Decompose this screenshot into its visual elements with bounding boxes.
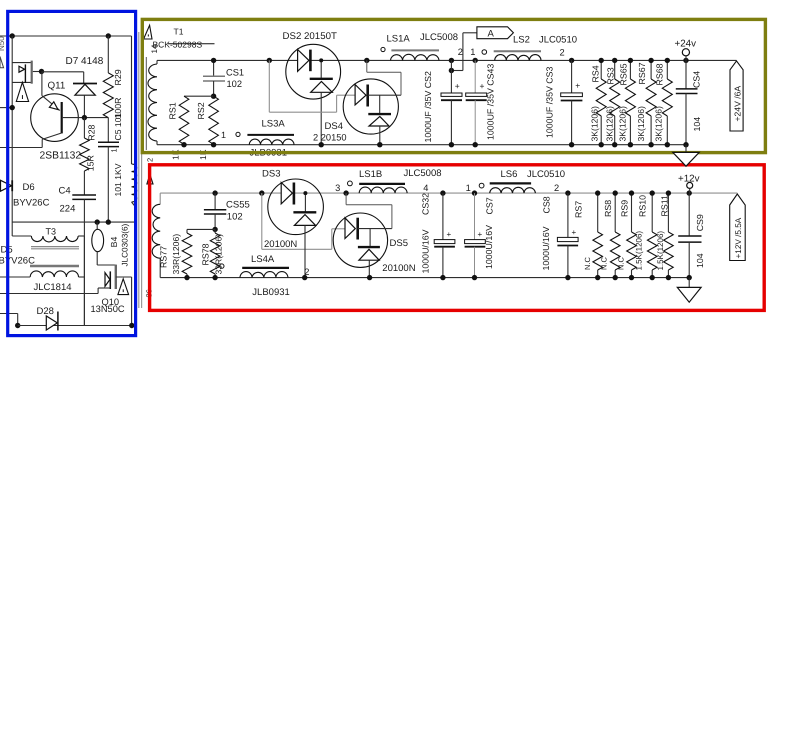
svg-text:JLC5008: JLC5008 — [420, 32, 458, 43]
node DS3 anode on bottom rail — [302, 275, 307, 280]
ground symbol +24V rail — [685, 145, 687, 153]
resistor RS7 — [597, 193, 599, 232]
svg-text:2SB1132: 2SB1132 — [40, 151, 82, 162]
svg-text:JLC0510: JLC0510 — [539, 35, 577, 46]
node DS2/DS4 feed tap — [267, 58, 272, 63]
resistor R28 wire from node — [83, 118, 85, 138]
inductor LS2 winding — [495, 55, 541, 61]
pin circle LS1A — [381, 47, 385, 51]
diode DS2b triangle — [311, 82, 333, 93]
wire DS5a cathode out — [358, 228, 392, 230]
svg-text:JLC1814: JLC1814 — [34, 282, 72, 293]
resistor RS77 zigzag — [186, 229, 188, 233]
transformer T3 core lines — [31, 246, 79, 248]
node CS43 bottom — [473, 142, 478, 147]
svg-text:102: 102 — [227, 79, 243, 89]
inductor LS1B bar — [359, 183, 405, 185]
diode DS3b cathode bar — [293, 211, 316, 213]
capacitor C5 plates — [98, 141, 119, 143]
node DS3 feed tap — [259, 190, 264, 195]
node CS3 top — [569, 58, 574, 63]
svg-text:+: + — [447, 230, 452, 239]
warning triangle red top-left — [147, 174, 153, 184]
resistor R29 zigzag — [103, 73, 113, 118]
node CS9 top / +12v node — [687, 190, 692, 195]
svg-text:224: 224 — [60, 204, 76, 215]
capacitor CS9 plates — [678, 235, 701, 237]
svg-text:+24v: +24v — [675, 39, 697, 50]
capacitor CS3 top lead — [571, 60, 573, 93]
node CS55 top — [212, 190, 217, 195]
node RS2 bottom — [211, 142, 216, 147]
capacitor CS2 positive plate — [441, 93, 462, 96]
wire RS77 top link — [187, 228, 215, 230]
transistor Q11 emitter arrow (PNP) — [49, 102, 58, 110]
wire bottom rail — [18, 325, 132, 327]
diode DS5a triangle — [345, 218, 355, 239]
ground symbol +12V rail — [688, 278, 690, 288]
inductor LS6 winding — [490, 187, 536, 193]
node CS7 bottom — [472, 275, 477, 280]
svg-text:RS77: RS77 — [158, 246, 168, 268]
pin circle LS2 — [482, 50, 487, 55]
svg-text:20100N: 20100N — [264, 239, 297, 250]
svg-text:1.5K(1206): 1.5K(1206) — [634, 231, 643, 271]
capacitor CS8 positive plate — [557, 237, 578, 241]
wire mosfet tap to node — [33, 71, 42, 73]
inductor LS1A winding — [391, 54, 440, 60]
svg-text:33R(1206): 33R(1206) — [171, 234, 181, 275]
resistor RS11 — [667, 193, 669, 232]
inductor LS4A winding — [240, 272, 288, 278]
wire horizontal at y222 — [12, 221, 135, 223]
node CS8 bottom — [565, 275, 570, 280]
diode DS5b triangle — [359, 249, 379, 260]
wire node to D7 — [42, 71, 84, 73]
warning triangle olive top-left — [144, 25, 152, 39]
olive group border box +24V — [142, 19, 765, 152]
inductor LS4A pin circle — [220, 264, 224, 268]
node RS77 bottom — [184, 275, 189, 280]
svg-text:2: 2 — [560, 47, 565, 57]
svg-text:104: 104 — [692, 117, 702, 132]
svg-text:C5 101: C5 101 — [113, 113, 123, 141]
resistor RS9 — [631, 193, 633, 232]
wire top rail left entering from image edge — [0, 35, 132, 37]
transistor Q10 source lead — [116, 276, 132, 278]
svg-text:20100N: 20100N — [382, 263, 415, 274]
svg-text:N50: N50 — [0, 36, 6, 51]
dual diode DS2 circle — [286, 44, 341, 99]
svg-text:N.C: N.C — [583, 257, 592, 271]
inductor LS2 bar — [494, 50, 541, 52]
svg-text:1: 1 — [110, 148, 119, 152]
pin circle LS3A — [236, 132, 240, 136]
capacitor CS7 positive plate — [465, 240, 486, 244]
cut-off triangle fragment at left edge — [0, 57, 4, 68]
transistor Q10 arrow — [105, 273, 110, 287]
diode DS2a cathode bar — [309, 50, 312, 72]
svg-text:+: + — [575, 81, 580, 91]
svg-text:RS2: RS2 — [196, 102, 206, 119]
resistor RS4 — [600, 60, 602, 79]
svg-text:13N50C: 13N50C — [91, 304, 125, 314]
svg-text:+24V /6A: +24V /6A — [732, 86, 742, 122]
junction C5/R29 branch top — [106, 33, 111, 38]
capacitor CS32 bottom lead — [442, 247, 444, 278]
wire DS3b link to rail — [304, 193, 306, 212]
node C4/B4 junction — [95, 219, 100, 224]
svg-text:+: + — [455, 81, 460, 91]
node D7/R28 junction — [82, 115, 87, 120]
capacitor CS32 positive plate — [434, 240, 455, 244]
node on rail — [10, 105, 15, 110]
svg-text:JLC0303(6): JLC0303(6) — [121, 223, 130, 266]
transistor Q9 mosfet channel bar — [31, 61, 33, 84]
svg-text:JLB0931: JLB0931 — [252, 287, 290, 298]
terminal circle +24v — [682, 49, 689, 56]
svg-text:1: 1 — [470, 47, 475, 57]
resistor RS2 zigzag — [209, 96, 219, 144]
diode DS2b cathode bar — [310, 78, 333, 80]
node DS3b top — [303, 191, 307, 195]
pin circle LS1B — [348, 181, 353, 186]
node RS78 bottom — [212, 275, 217, 280]
capacitor CS3 negative plate — [561, 100, 583, 102]
svg-text:RS65: RS65 — [618, 63, 628, 85]
capacitor CS1 bottom lead — [213, 81, 215, 96]
svg-text:Q11: Q11 — [48, 81, 66, 92]
wire gate drive from left edge — [0, 293, 98, 295]
svg-text:1K: 1K — [198, 149, 208, 160]
transistor Q9 mosfet source lead — [12, 81, 32, 83]
warning triangle near Q10 — [118, 279, 129, 295]
svg-text:CS8: CS8 — [541, 196, 551, 213]
diode DS5a cathode bar — [356, 218, 359, 240]
svg-text:RS67: RS67 — [637, 62, 647, 84]
node bottom rail left — [15, 323, 20, 328]
capacitor CS32 negative plate — [434, 246, 455, 248]
diode D7 cathode bar — [73, 83, 97, 85]
red group border box +12V — [150, 165, 765, 311]
transistor Q10 gate lead — [98, 287, 110, 289]
wire C5 down — [107, 147, 109, 223]
power flag +12V 5.5A pennant — [730, 194, 746, 261]
resistor RS8 — [614, 193, 616, 232]
wire T3 winding1 right lead — [78, 235, 84, 237]
ferrite bead B4 ellipse — [92, 229, 104, 251]
transformer T1 core lines — [138, 32, 140, 308]
diode DS3b triangle — [294, 215, 315, 226]
svg-text:2: 2 — [145, 158, 154, 162]
inductor JLC1814 winding — [30, 271, 78, 277]
wire collector down — [41, 139, 43, 147]
transistor Q11 emitter lead — [42, 96, 60, 111]
capacitor CS9 bottom lead — [688, 242, 690, 278]
capacitor CS32 top lead — [442, 193, 444, 240]
wire gray feed to DS4 — [268, 60, 270, 112]
transformer T1 secondary B winding — [159, 193, 161, 204]
svg-text:15R: 15R — [85, 155, 95, 171]
capacitor CS43 negative plate — [466, 99, 487, 101]
node DS2b top — [319, 58, 323, 62]
transistor Q11 circle — [31, 94, 79, 142]
svg-text:N.C: N.C — [600, 257, 609, 271]
inductor LS1A bar — [391, 49, 439, 51]
svg-text:1.5K(1206): 1.5K(1206) — [656, 231, 665, 271]
wire DS4b anode down — [379, 126, 381, 145]
capacitor CS9 top lead — [688, 193, 690, 236]
inductor LS3A bar — [247, 134, 294, 136]
svg-text:1: 1 — [466, 183, 471, 193]
transformer T3 winding 1 left lead — [12, 235, 31, 237]
capacitor CS4 plates — [676, 88, 698, 90]
wire JLC1814 left lead from edge — [0, 276, 30, 278]
svg-text:3K(1206): 3K(1206) — [618, 106, 628, 141]
svg-text:T3: T3 — [46, 227, 57, 237]
svg-text:3K(1206): 3K(1206) — [605, 106, 615, 141]
svg-text:A: A — [488, 29, 495, 40]
capacitor CS55 top lead — [214, 193, 216, 210]
resistor RS3 — [614, 60, 616, 79]
capacitor CS7 bottom lead — [474, 247, 476, 278]
svg-text:3K(1206): 3K(1206) — [654, 106, 664, 141]
capacitor CS4 bottom lead — [685, 94, 687, 145]
diode D6 cathode bar on rail — [11, 180, 13, 191]
page connector A flag — [477, 27, 514, 39]
inductor LS4A bar — [242, 267, 289, 269]
node RS1 bottom — [181, 142, 186, 147]
warning triangle symbol — [16, 82, 28, 101]
wire collector out to left edge — [0, 147, 42, 149]
svg-text:1000UF /35V CS3: 1000UF /35V CS3 — [545, 66, 555, 138]
node CS43 top — [473, 58, 478, 63]
svg-text:LS1A: LS1A — [387, 34, 411, 45]
wire T1 primary bottom jog — [132, 202, 136, 207]
diode DS3a cathode bar — [293, 183, 296, 205]
capacitor CS43 positive plate — [466, 93, 487, 96]
svg-text:CS9: CS9 — [695, 214, 705, 231]
svg-text:DS5: DS5 — [390, 238, 408, 249]
ferrite bead B4 top lead — [96, 222, 98, 229]
svg-text:1000U/16V: 1000U/16V — [421, 229, 431, 273]
diode DS4b triangle — [369, 116, 389, 126]
wire DS5b anode down — [368, 260, 370, 277]
transformer T1 secondary chord line — [145, 57, 147, 150]
wire +12V bottom rail — [160, 277, 689, 279]
inductor LS3A winding — [249, 139, 294, 145]
svg-text:RS78: RS78 — [200, 243, 210, 265]
svg-text:CS4: CS4 — [692, 71, 702, 88]
wire Q11 base to R28/R29 node — [63, 117, 109, 119]
wire terminal to rail — [689, 188, 691, 193]
page connector A wire — [463, 32, 477, 34]
capacitor CS3 positive plate — [561, 93, 583, 97]
node CS32 bottom — [440, 275, 445, 280]
resistor R28 zigzag — [80, 138, 90, 171]
svg-text:DS3: DS3 — [262, 169, 280, 180]
diode D28 triangle — [46, 316, 57, 330]
node DS5 link on top rail — [343, 190, 348, 195]
node junction at left rail top — [10, 33, 15, 38]
node CS1 top — [211, 58, 216, 63]
power flag +24V 6A pennant — [730, 61, 743, 131]
capacitor CS8 top lead — [567, 193, 569, 237]
diode DS3a triangle — [281, 183, 292, 204]
node A connector tap — [449, 68, 454, 73]
diode D28 cathode bar — [57, 312, 59, 331]
diode DS4a triangle — [355, 85, 366, 105]
transistor Q11 base bar — [61, 102, 63, 133]
wire +24V bottom rail — [157, 144, 686, 146]
wire DS5b cathode link — [369, 229, 371, 248]
wire from left edge to bottom rail — [0, 313, 18, 315]
svg-text:R29: R29 — [113, 69, 123, 85]
transformer T3 winding 1 — [31, 236, 78, 242]
capacitor CS8 negative plate — [557, 245, 578, 247]
node RS1/RS2 top — [211, 94, 216, 99]
node CS3 bottom — [569, 142, 574, 147]
svg-text:102: 102 — [227, 212, 243, 223]
svg-text:2: 2 — [304, 267, 309, 277]
wire down to D7 cathode — [83, 72, 85, 84]
wire stub from left edge — [0, 107, 12, 109]
resistor RS65 — [629, 60, 631, 79]
svg-text:1000UF /35V CS43: 1000UF /35V CS43 — [485, 64, 495, 140]
wire R28 to C4 — [83, 171, 85, 195]
capacitor CS55 bottom lead — [214, 214, 216, 229]
capacitor C4 plates — [72, 194, 96, 196]
pin circle LS6 — [479, 183, 484, 188]
capacitor CS2 bottom lead — [450, 100, 452, 145]
svg-text:N.C: N.C — [616, 257, 625, 271]
diode DS5b cathode bar — [358, 246, 380, 248]
svg-text:CS55: CS55 — [226, 200, 250, 211]
svg-text:RS10: RS10 — [637, 195, 647, 217]
capacitor CS4 top lead — [683, 58, 688, 63]
resistor RS67 — [650, 60, 652, 79]
ferrite bead B4 bottom lead — [96, 252, 98, 265]
svg-text:CS32: CS32 — [421, 193, 431, 215]
wire C4 down long vertical — [83, 199, 85, 325]
wire node down to Q11 emitter — [41, 72, 43, 96]
svg-text:BCK-50298S: BCK-50298S — [153, 40, 203, 50]
svg-text:2: 2 — [554, 183, 559, 193]
svg-text:LS4A: LS4A — [251, 254, 275, 265]
node CS2 top — [449, 58, 454, 63]
svg-text:104: 104 — [695, 253, 705, 268]
node CS8 top — [565, 190, 570, 195]
transistor Q9 mosfet arrow — [19, 66, 25, 72]
svg-text:B4: B4 — [109, 236, 119, 247]
svg-text:JLC0510: JLC0510 — [527, 169, 565, 180]
transistor Q9 mosfet drain lead — [12, 62, 32, 64]
node CS4 bottom / ground node — [683, 142, 688, 147]
diode DS4a cathode bar — [366, 85, 369, 107]
capacitor CS2 negative plate — [441, 99, 462, 101]
svg-text:1K: 1K — [170, 149, 180, 160]
svg-text:1: 1 — [221, 130, 226, 140]
svg-text:JLC5008: JLC5008 — [404, 168, 442, 179]
wire D7 anode down — [83, 95, 85, 117]
svg-text:RS11: RS11 — [660, 195, 670, 216]
capacitor CS55 plates — [204, 209, 226, 211]
node CS9 bottom / ground node — [687, 275, 692, 280]
transistor Q11 collector lead — [42, 133, 61, 139]
capacitor CS1 top lead — [213, 60, 215, 76]
capacitor CS8 bottom lead — [567, 246, 569, 278]
svg-text:RS9: RS9 — [620, 200, 630, 217]
wire DS2b anode down — [320, 92, 322, 144]
svg-text:D7 4148: D7 4148 — [66, 56, 104, 67]
resistor RS10 — [651, 193, 653, 232]
svg-text:1000U/16V: 1000U/16V — [541, 226, 551, 270]
wire DS4a cathode out — [368, 94, 401, 96]
svg-text:T1: T1 — [174, 27, 184, 37]
dual diode DS4 circle — [343, 79, 398, 134]
capacitor CS7 top lead — [474, 193, 476, 240]
transformer T1 primary winding — [132, 164, 137, 202]
svg-text:RS3: RS3 — [605, 67, 615, 84]
wire DS5 dog-leg to rail — [345, 193, 347, 205]
inductor LS1B winding — [359, 187, 407, 193]
wire DS2b link to rail — [320, 60, 322, 78]
capacitor CS3 bottom lead — [571, 101, 573, 145]
svg-text:RS4: RS4 — [590, 65, 600, 82]
svg-text:RS68: RS68 — [654, 63, 664, 85]
svg-text:1000U/16V: 1000U/16V — [484, 225, 494, 269]
node DS5 anode on bottom rail — [367, 275, 372, 280]
wire DS3b anode down — [304, 225, 306, 277]
dual diode DS5 circle — [333, 213, 387, 267]
wire Q10 source down — [131, 277, 133, 326]
node bottom rail right — [129, 323, 134, 328]
svg-text:D6: D6 — [23, 182, 35, 193]
wire JLC1814 right lead — [79, 276, 85, 278]
svg-text:D28: D28 — [37, 306, 54, 317]
capacitor CS43 top lead — [474, 60, 476, 93]
wire gray feed to DS5 — [261, 193, 263, 249]
node A1 junction — [39, 69, 44, 74]
svg-text:LS1B: LS1B — [359, 169, 382, 180]
node CS32 top — [440, 190, 445, 195]
svg-text:LS6: LS6 — [501, 169, 518, 180]
resistor RS78 zigzag — [214, 229, 216, 233]
capacitor CS1 plates — [203, 75, 225, 77]
svg-text:RS1: RS1 — [168, 102, 178, 119]
diode D6 triangle — [1, 180, 12, 191]
inductor LS6 bar — [490, 182, 531, 184]
wire +12V top rail — [160, 192, 737, 194]
node CS2 bottom — [449, 142, 454, 147]
transistor Q9 mosfet gate bar — [24, 64, 26, 83]
capacitor C5 wire from node — [107, 118, 109, 143]
svg-text:LS3A: LS3A — [262, 119, 286, 130]
svg-text:2: 2 — [458, 47, 463, 57]
svg-text:+12V /5.5A: +12V /5.5A — [734, 217, 743, 258]
node RS77/RS78 top — [212, 227, 217, 232]
wire +24V top rail — [157, 59, 737, 61]
svg-text:DS2 20150T: DS2 20150T — [283, 31, 337, 42]
transistor Q10 gate bar — [109, 271, 111, 289]
svg-text:CS1: CS1 — [226, 68, 244, 78]
diode DS4b cathode bar — [368, 113, 391, 115]
wire long vertical right of T3 — [83, 236, 85, 326]
node DS4 anode on bottom rail — [377, 142, 382, 147]
diode DS2a triangle — [298, 50, 309, 72]
resistor RS68 — [666, 60, 668, 79]
svg-text:RS8: RS8 — [603, 200, 613, 217]
